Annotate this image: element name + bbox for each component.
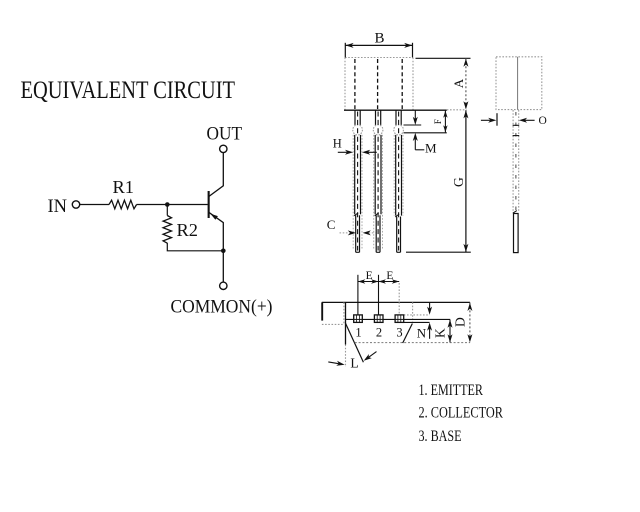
terminal IN — [72, 201, 79, 208]
dimension A line (dotted) — [465, 58, 467, 109]
svg-text:M: M — [425, 141, 437, 156]
dimension E line with arrows — [358, 281, 399, 283]
lead centerline through boxes — [346, 318, 451, 320]
side view body outline (dotted) — [496, 57, 542, 110]
dimension O left line and arrow — [481, 119, 491, 121]
wire IN to R1 — [80, 204, 109, 206]
bottom extension line for G — [406, 251, 471, 253]
lead 1 front view — [353, 110, 363, 252]
svg-text:OUT: OUT — [207, 124, 243, 145]
bottom view left chamfer line (L angle) — [346, 323, 364, 362]
svg-text:EQUIVALENT CIRCUIT: EQUIVALENT CIRCUIT — [21, 77, 236, 104]
bottom view left edge dotted extension — [345, 345, 347, 368]
bottom view right edge (dotted) — [412, 302, 414, 323]
lead box top extension (dotted) — [404, 314, 430, 316]
front view body outline (dotted) — [345, 58, 413, 111]
dimension N arrows — [429, 302, 431, 308]
svg-text:R2: R2 — [177, 220, 199, 240]
dimension M leader and arrows — [414, 110, 416, 119]
svg-text:C: C — [327, 217, 336, 232]
svg-text:1: 1 — [355, 325, 361, 339]
svg-text:K: K — [432, 328, 447, 338]
svg-text:2: 2 — [376, 326, 382, 340]
svg-text:3: 3 — [396, 325, 402, 339]
dimension C lines and arrows — [340, 232, 350, 234]
lead 3 section box — [395, 315, 404, 323]
terminal COMMON — [220, 282, 227, 289]
dimension A extension line — [416, 57, 471, 59]
dimension K line — [449, 320, 451, 343]
bottom view top edge — [322, 301, 470, 303]
bottom view left edge — [345, 302, 347, 344]
side view lead ticks — [513, 124, 520, 126]
dimension L leader arrows — [328, 362, 339, 364]
dimension O tick — [496, 113, 498, 126]
wire node down to R2 — [166, 205, 168, 216]
side view lead tip — [514, 214, 519, 253]
transistor Q1 base bar — [208, 191, 210, 218]
svg-text:E: E — [366, 270, 373, 282]
wire R2 bottom to emitter junction — [167, 243, 223, 251]
transistor Q1 emitter arrow (PNP) — [210, 214, 218, 220]
terminal OUT — [220, 145, 227, 152]
lead 3 front view — [394, 110, 404, 252]
svg-text:R1: R1 — [113, 177, 135, 197]
dimension D line (dotted) — [469, 302, 471, 342]
side view lead break — [513, 211, 517, 214]
svg-text:2. COLLECTOR: 2. COLLECTOR — [419, 404, 504, 421]
dimension F double arrow — [444, 111, 446, 133]
lead 2 section box — [374, 315, 383, 323]
svg-text:COMMON(+): COMMON(+) — [171, 297, 273, 318]
transistor Q1 emitter — [209, 212, 224, 282]
side view lead center dashed — [515, 112, 517, 210]
dimension E extension lines — [357, 275, 359, 315]
dimension G line — [465, 110, 467, 252]
bottom view right chamfer — [403, 324, 413, 343]
svg-text:F: F — [434, 119, 444, 124]
hidden lead lines inside body (dashed) — [355, 59, 402, 109]
node base junction — [165, 202, 170, 207]
lead 1 section box — [354, 315, 363, 323]
bottom view left end box — [321, 302, 323, 320]
dimension O right arrow and line — [519, 118, 527, 123]
svg-text:H: H — [333, 137, 342, 151]
node emitter junction — [221, 249, 226, 254]
svg-text:N: N — [417, 325, 427, 340]
svg-text:E: E — [386, 270, 393, 282]
svg-text:1. EMITTER: 1. EMITTER — [419, 382, 484, 399]
wire R1 to base node — [137, 204, 208, 206]
svg-text:B: B — [375, 31, 385, 47]
dimension B extension ticks — [344, 43, 346, 58]
front view body bottom dotted extension — [447, 109, 467, 111]
svg-text:G: G — [451, 177, 466, 187]
lead 2 front view — [373, 110, 383, 252]
dimension B line — [345, 44, 412, 46]
side view body center line — [517, 57, 519, 110]
bottom view bottom edge (dotted) — [355, 342, 470, 344]
svg-text:O: O — [539, 115, 547, 127]
svg-text:D: D — [452, 317, 467, 327]
resistor R2 — [163, 216, 171, 244]
svg-text:3. BASE: 3. BASE — [419, 428, 462, 445]
front view body bottom edge — [344, 109, 447, 111]
svg-text:IN: IN — [48, 197, 68, 217]
side view lead (dotted outline) — [512, 110, 514, 212]
lead box bottom extension — [404, 321, 430, 323]
svg-text:A: A — [451, 78, 466, 88]
transistor Q1 collector — [209, 153, 224, 197]
svg-text:L: L — [350, 355, 358, 370]
resistor R1 — [109, 200, 137, 209]
dimension H lines and arrows — [338, 151, 347, 153]
